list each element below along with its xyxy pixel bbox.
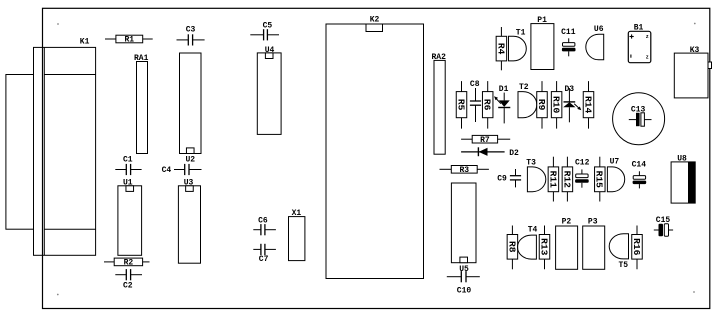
resistor R16 xyxy=(631,226,642,270)
svg-text:T2: T2 xyxy=(519,83,529,92)
resistor R6 xyxy=(482,81,493,129)
svg-text:z: z xyxy=(646,54,649,60)
svg-text:R6: R6 xyxy=(482,99,493,111)
IC U1 xyxy=(118,178,142,255)
svg-text:R2: R2 xyxy=(124,259,134,268)
crystal X1 xyxy=(289,209,305,261)
svg-text:C3: C3 xyxy=(186,26,196,35)
capacitor C10 xyxy=(447,271,480,296)
diode D3 xyxy=(563,85,581,123)
resistor R12 xyxy=(561,157,572,202)
svg-text:R7: R7 xyxy=(480,136,490,145)
potentiometer P1 xyxy=(531,16,554,70)
capacitor C13 xyxy=(613,93,665,145)
capacitor C11 xyxy=(561,28,576,57)
svg-text:R3: R3 xyxy=(459,166,469,175)
resistor R13 xyxy=(538,226,549,270)
transistor T5 xyxy=(609,234,628,270)
transistor T1 xyxy=(509,29,527,61)
mounting hole dot bottom-left xyxy=(57,294,59,296)
resistor R4 xyxy=(495,27,506,70)
svg-text:R1: R1 xyxy=(124,36,134,45)
svg-text:z: z xyxy=(646,34,649,40)
svg-text:T3: T3 xyxy=(526,159,536,168)
svg-text:R16: R16 xyxy=(631,238,642,256)
svg-text:U6: U6 xyxy=(594,25,604,34)
capacitor C8 xyxy=(470,80,481,122)
resistor R5 xyxy=(455,81,466,129)
resistor R2 xyxy=(104,258,150,268)
svg-text:C2: C2 xyxy=(123,281,133,290)
svg-text:D2: D2 xyxy=(509,149,519,158)
resistor R8 xyxy=(506,226,517,270)
svg-text:T4: T4 xyxy=(528,225,538,234)
IC U6 xyxy=(586,25,604,60)
svg-text:R4: R4 xyxy=(495,43,506,55)
potentiometer P2 xyxy=(556,217,578,269)
svg-text:K1: K1 xyxy=(80,38,90,47)
capacitor C6 xyxy=(253,216,276,235)
svg-text:R11: R11 xyxy=(547,171,558,189)
resistor R15 xyxy=(594,157,605,202)
svg-text:U2: U2 xyxy=(185,156,195,165)
IC U8 xyxy=(671,155,695,204)
svg-text:R14: R14 xyxy=(582,96,593,114)
svg-text:R12: R12 xyxy=(561,171,572,189)
resistor R10 xyxy=(551,81,562,129)
svg-text:C1: C1 xyxy=(123,155,133,164)
resistor network RA1 xyxy=(134,54,149,154)
resistor R14 xyxy=(582,81,593,129)
connector K1 xyxy=(6,38,96,256)
capacitor C9 xyxy=(497,169,521,187)
IC U3 xyxy=(178,178,200,263)
svg-text:C6: C6 xyxy=(258,216,268,225)
capacitor C12 xyxy=(575,159,590,188)
svg-text:R15: R15 xyxy=(594,171,605,189)
svg-text:R5: R5 xyxy=(455,99,466,111)
svg-text:C7: C7 xyxy=(259,255,269,264)
connector K3 xyxy=(674,46,711,98)
svg-text:C4: C4 xyxy=(162,166,172,175)
diode D2 xyxy=(461,147,519,158)
capacitor C15 xyxy=(654,216,673,236)
svg-text:R13: R13 xyxy=(538,238,549,256)
resistor R9 xyxy=(536,81,547,129)
svg-text:T5: T5 xyxy=(619,261,629,270)
transistor T2 xyxy=(518,83,537,118)
IC U4 xyxy=(257,46,281,135)
capacitor C1 xyxy=(115,155,141,175)
svg-text:C10: C10 xyxy=(457,287,472,296)
svg-text:D1: D1 xyxy=(499,85,509,94)
svg-text:P3: P3 xyxy=(588,217,598,226)
svg-text:K2: K2 xyxy=(370,15,380,24)
IC U7 xyxy=(607,158,624,192)
capacitor C2 xyxy=(115,269,142,290)
resistor network RA2 xyxy=(432,53,447,154)
IC U2 xyxy=(180,53,202,165)
svg-text:C12: C12 xyxy=(575,159,590,168)
battery B1 xyxy=(628,23,651,62)
transistor T3 xyxy=(526,159,546,192)
transistor T4 xyxy=(518,225,538,259)
svg-text:U7: U7 xyxy=(610,158,620,167)
svg-text:C5: C5 xyxy=(263,21,273,30)
capacitor C4 xyxy=(162,164,202,175)
capacitor C3 xyxy=(177,26,205,46)
connector K2 xyxy=(326,15,424,278)
svg-text:P2: P2 xyxy=(562,217,572,226)
mounting hole dot top-left xyxy=(57,23,59,25)
svg-text:C11: C11 xyxy=(561,28,576,37)
svg-text:R8: R8 xyxy=(506,241,517,253)
resistor R7 xyxy=(461,135,510,145)
IC U5 xyxy=(451,183,476,274)
potentiometer P3 xyxy=(583,217,605,269)
svg-text:C8: C8 xyxy=(470,80,480,89)
resistor R11 xyxy=(547,157,558,202)
mounting hole dot bottom-right xyxy=(693,291,695,293)
svg-text:C14: C14 xyxy=(632,161,647,170)
capacitor C7 xyxy=(253,244,276,264)
diode D1 xyxy=(494,85,510,124)
capacitor C14 xyxy=(632,161,647,189)
resistor R3 xyxy=(440,166,489,176)
svg-text:R9: R9 xyxy=(536,99,547,111)
svg-text:T1: T1 xyxy=(516,29,526,38)
resistor R1 xyxy=(105,35,153,45)
capacitor C5 xyxy=(250,21,279,40)
mounting hole dot top-right xyxy=(694,23,696,25)
svg-text:R10: R10 xyxy=(551,96,562,114)
svg-text:C9: C9 xyxy=(497,175,507,184)
